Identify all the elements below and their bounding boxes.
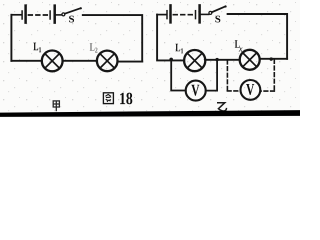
switch S lever (right) bbox=[212, 6, 226, 12]
lamp L2 bbox=[97, 51, 118, 72]
dashed lead: right of voltmeter V2 bbox=[273, 60, 275, 92]
battery cell 2 long plate bbox=[198, 5, 201, 22]
wire: bottom-left segment bbox=[157, 59, 184, 61]
switch S lever bbox=[65, 8, 81, 14]
bottom scan bar bbox=[0, 110, 300, 117]
junction right of lamp Lx bbox=[270, 57, 273, 60]
wire: top-right segment and right edge bbox=[228, 14, 288, 59]
label V in voltmeter V2 bbox=[246, 84, 254, 95]
paper background bbox=[0, 0, 300, 118]
junction right of lamp L1 bbox=[215, 58, 218, 61]
label S (left switch) bbox=[69, 16, 74, 23]
battery cell 2 short plate bbox=[195, 11, 197, 19]
wire (dashed) between battery cells bbox=[173, 14, 193, 16]
wire: left voltmeter left lead bbox=[171, 59, 186, 90]
label 18 bbox=[120, 93, 125, 104]
wire: top-left segment to battery bbox=[11, 14, 21, 16]
wire between lamps bbox=[205, 59, 240, 61]
label 图 (drawn glyph) bbox=[103, 93, 113, 104]
label L2 (left circuit) bbox=[90, 43, 95, 51]
wire: top-right segment and right edge bbox=[83, 15, 142, 62]
dashed lead: left of voltmeter V2 bbox=[226, 60, 228, 91]
switch S pivot bbox=[62, 13, 65, 16]
wire: top-left segment to battery bbox=[157, 14, 167, 16]
label 乙 (drawn glyph) bbox=[217, 103, 227, 111]
battery cell 1 long plate bbox=[24, 6, 27, 23]
switch S pivot (right) bbox=[209, 11, 212, 14]
switch S contact tip bbox=[80, 7, 82, 9]
switch S contact tip (right) bbox=[225, 5, 227, 7]
voltmeter V2 bbox=[241, 80, 261, 100]
lamp Lx bbox=[240, 50, 260, 70]
voltmeter V1 bbox=[186, 81, 206, 101]
wire battery to switch bbox=[201, 13, 209, 15]
battery cell 1 short plate bbox=[21, 11, 23, 19]
battery cell 2 long plate bbox=[53, 6, 56, 23]
wire: left voltmeter right lead bbox=[206, 60, 217, 91]
lamp L1 bbox=[42, 51, 63, 72]
junction left voltmeter tap bbox=[169, 58, 173, 62]
wire battery to switch bbox=[56, 14, 62, 16]
label S (right switch) bbox=[215, 16, 220, 23]
wire: bottom-left segment bbox=[11, 60, 41, 62]
battery cell 1 long plate bbox=[169, 5, 172, 22]
wire between lamps bbox=[63, 60, 97, 62]
label 甲 (drawn glyph) bbox=[53, 101, 59, 111]
label V in voltmeter V1 bbox=[191, 85, 199, 96]
label Lx bbox=[235, 40, 240, 48]
wire: left edge of left loop bbox=[10, 15, 12, 61]
label L1 (left circuit) bbox=[33, 43, 38, 51]
wire (dashed) between battery cells bbox=[29, 14, 49, 16]
label L1 (right circuit) bbox=[175, 44, 180, 52]
lamp L1 (right circuit) bbox=[184, 50, 205, 71]
wire: left edge of right loop bbox=[156, 15, 158, 59]
battery cell 2 short plate bbox=[49, 11, 51, 19]
wire: bottom-right segment bbox=[118, 61, 143, 63]
wire: bottom-right segment bbox=[260, 58, 287, 60]
battery cell 1 short plate bbox=[166, 11, 168, 19]
